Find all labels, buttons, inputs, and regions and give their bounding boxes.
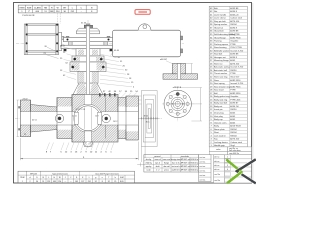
top-left spec table bbox=[18, 5, 97, 13]
svg-text:Spring washer: Spring washer bbox=[214, 23, 228, 26]
bottom drain boss bbox=[83, 142, 93, 147]
mounting plate B bbox=[61, 45, 114, 49]
svg-text:Body nut: Body nut bbox=[214, 105, 223, 108]
svg-text:Seat retainer ring: Seat retainer ring bbox=[214, 85, 231, 88]
svg-text:d: d bbox=[30, 177, 31, 179]
svg-text:Inconel X-750: Inconel X-750 bbox=[230, 50, 244, 52]
packing flange bbox=[72, 56, 104, 62]
seats bbox=[74, 112, 78, 124]
svg-text:cert no.: cert no. bbox=[200, 165, 206, 168]
svg-text:conn end: conn end bbox=[163, 159, 171, 161]
svg-text:—: — bbox=[70, 181, 72, 183]
top studs bbox=[99, 93, 101, 96]
svg-text:SS+PTFE: SS+PTFE bbox=[230, 34, 240, 36]
svg-text:PTFE: PTFE bbox=[230, 90, 236, 92]
svg-text:API 607 ed: API 607 ed bbox=[181, 169, 190, 172]
svg-text:A105+Zn: A105+Zn bbox=[230, 13, 239, 16]
svg-text:A193 B8: A193 B8 bbox=[230, 30, 239, 33]
svg-text:A216 WCB: A216 WCB bbox=[230, 125, 241, 128]
svg-text:Class 600 Flange Dimensions: Class 600 Flange Dimensions bbox=[95, 173, 119, 175]
svg-text:A182 F304: A182 F304 bbox=[230, 36, 241, 39]
svg-text:A194 8: A194 8 bbox=[230, 26, 237, 29]
svg-text:A276 410: A276 410 bbox=[230, 62, 240, 65]
svg-text:L: L bbox=[48, 177, 49, 179]
svg-text:Seat insert: Seat insert bbox=[214, 89, 224, 92]
svg-text:A105: A105 bbox=[230, 59, 236, 62]
svg-text:Drain plug: Drain plug bbox=[214, 111, 224, 114]
svg-text:1: 1 bbox=[22, 181, 23, 183]
svg-text:1 N-BV 600 RF: 1 N-BV 600 RF bbox=[22, 15, 36, 17]
svg-text:general: general bbox=[154, 155, 161, 158]
svg-text:B16.34 a: B16.34 a bbox=[191, 170, 199, 172]
svg-text:Graphite: Graphite bbox=[230, 95, 239, 98]
svg-text:det no: det no bbox=[214, 168, 219, 171]
nested dimension rectangles (end detail) bbox=[142, 91, 158, 147]
svg-text:B16.34 a: B16.34 a bbox=[191, 159, 199, 161]
strip cells below parts table bbox=[209, 147, 227, 152]
svg-text:SS316: SS316 bbox=[230, 109, 237, 111]
red approval stamp bbox=[135, 10, 150, 15]
bonnet neck bbox=[70, 62, 106, 71]
svg-text:ITEM: ITEM bbox=[20, 177, 25, 179]
svg-text:Mounting flange: Mounting flange bbox=[214, 59, 230, 62]
svg-text:292: 292 bbox=[88, 181, 91, 183]
svg-text:b: b bbox=[115, 177, 116, 179]
svg-text:Gland flange: Gland flange bbox=[214, 37, 227, 39]
svg-text:Inconel X-750: Inconel X-750 bbox=[230, 67, 244, 69]
svg-text:SS304: SS304 bbox=[230, 129, 237, 131]
svg-text:det no: det no bbox=[214, 156, 219, 159]
svg-text:Body seal ring: Body seal ring bbox=[214, 98, 228, 101]
svg-text:Graphite: Graphite bbox=[230, 40, 239, 43]
svg-text:1 : 2: 1 : 2 bbox=[156, 170, 160, 172]
svg-text:ITEM: ITEM bbox=[19, 7, 24, 9]
ISO mounting pad detail bbox=[163, 74, 198, 79]
centerline main horizontal bbox=[15, 117, 162, 119]
svg-text:Name plate: Name plate bbox=[214, 128, 225, 131]
body top adapter bbox=[73, 83, 103, 94]
svg-text:Body stud bolt: Body stud bolt bbox=[214, 102, 228, 105]
svg-text:L: L bbox=[89, 177, 90, 179]
svg-text:Nut: Nut bbox=[214, 10, 218, 13]
svg-text:g: g bbox=[95, 177, 96, 179]
stem passage bbox=[84, 95, 92, 105]
svg-text:det no: det no bbox=[214, 160, 219, 163]
svg-text:Thrust washer: Thrust washer bbox=[214, 72, 227, 75]
svg-text:SIZE: SIZE bbox=[27, 7, 32, 9]
svg-text:W: W bbox=[57, 7, 59, 9]
svg-text:A193 B8: A193 B8 bbox=[230, 7, 239, 10]
svg-text:A194 8: A194 8 bbox=[230, 10, 237, 13]
svg-text:app by: app by bbox=[146, 166, 152, 168]
svg-text:28 27: 28 27 bbox=[60, 46, 66, 48]
svg-text:API 607 ed: API 607 ed bbox=[181, 165, 190, 168]
svg-text:SS304: SS304 bbox=[230, 24, 237, 26]
svg-text:Rivet: Rivet bbox=[214, 131, 219, 134]
svg-text:Hexagon nut: Hexagon nut bbox=[214, 56, 226, 59]
svg-text:Body gasket ring: Body gasket ring bbox=[214, 95, 230, 98]
svg-text:Lock washer: Lock washer bbox=[214, 134, 226, 137]
svg-text:B16.34 a: B16.34 a bbox=[191, 163, 199, 165]
svg-text:des by: des by bbox=[146, 159, 152, 161]
stem shaft bbox=[86, 26, 89, 95]
svg-text:scale: scale bbox=[146, 170, 150, 172]
svg-text:45 46: 45 46 bbox=[114, 50, 120, 52]
svg-text:Lever handle: Lever handle bbox=[214, 13, 227, 16]
gland body bbox=[76, 49, 100, 56]
svg-text:31 33: 31 33 bbox=[81, 23, 87, 25]
svg-text:SS316: SS316 bbox=[230, 70, 237, 72]
svg-text:38 42: 38 42 bbox=[144, 116, 149, 118]
svg-text:NPS-DN: NPS-DN bbox=[30, 173, 38, 175]
svg-text:Closure conn.: Closure conn. bbox=[214, 121, 227, 124]
svg-text:cert no.: cert no. bbox=[200, 178, 206, 181]
svg-text:A105: A105 bbox=[230, 111, 236, 114]
svg-text:Ball: Ball bbox=[214, 93, 218, 95]
title block main bbox=[144, 155, 199, 172]
svg-text:26 12: 26 12 bbox=[113, 121, 118, 123]
svg-text:rev. No: rev. No bbox=[214, 180, 220, 182]
svg-text:Stem bearing: Stem bearing bbox=[214, 46, 227, 49]
svg-text:Carbon steel: Carbon steel bbox=[230, 17, 242, 20]
svg-text:51: 51 bbox=[42, 181, 44, 183]
svg-text:draft: draft bbox=[156, 165, 160, 168]
svg-text:A105: A105 bbox=[230, 115, 236, 118]
svg-text:Stem: Stem bbox=[214, 79, 219, 82]
svg-text:Vent plug: Vent plug bbox=[214, 115, 224, 118]
svg-text:Anti-static spring: Anti-static spring bbox=[214, 66, 230, 69]
svg-text:Inconel X-750: Inconel X-750 bbox=[230, 83, 244, 85]
svg-text:N-M: N-M bbox=[120, 177, 124, 179]
svg-text:41 51: 41 51 bbox=[32, 120, 37, 122]
svg-text:Packing: Packing bbox=[214, 41, 222, 43]
stem tower cap and leader 31 33 bbox=[84, 25, 92, 28]
svg-text:W: W bbox=[59, 177, 61, 179]
svg-text:A182 F316: A182 F316 bbox=[230, 79, 241, 82]
svg-text:flange: flange bbox=[164, 163, 169, 165]
mounting plate A bbox=[64, 37, 114, 41]
svg-text:valve: valve bbox=[216, 149, 220, 151]
bottom dimension table bbox=[18, 171, 135, 183]
svg-text:A182 F316: A182 F316 bbox=[230, 85, 241, 88]
svg-text:2": 2" bbox=[28, 11, 30, 13]
flange joint lines bbox=[30, 100, 32, 137]
svg-text:92: 92 bbox=[95, 181, 97, 183]
XHVAL X logo bbox=[226, 159, 241, 183]
svg-text:A276 410: A276 410 bbox=[230, 138, 240, 141]
svg-text:Seat spring: Seat spring bbox=[214, 82, 225, 85]
svg-text:Insert pin: Insert pin bbox=[214, 108, 223, 111]
sheet border frame bbox=[14, 3, 252, 184]
svg-text:⌀38-M8-B: ⌀38-M8-B bbox=[173, 86, 182, 89]
right flange bbox=[126, 96, 138, 140]
svg-text:n: n bbox=[102, 177, 103, 179]
svg-text:standards: standards bbox=[181, 155, 189, 158]
svg-text:wps 4: wps 4 bbox=[155, 163, 160, 165]
svg-text:A194 2H: A194 2H bbox=[230, 105, 239, 108]
svg-text:—: — bbox=[64, 181, 66, 183]
svg-text:Carbon steel: Carbon steel bbox=[230, 141, 242, 144]
lever handle top view bbox=[109, 43, 184, 45]
svg-text:A182 F316: A182 F316 bbox=[230, 92, 241, 95]
flange bolt circle view bbox=[162, 103, 194, 105]
svg-text:A105: A105 bbox=[230, 118, 236, 121]
svg-text:A276 410: A276 410 bbox=[230, 20, 240, 23]
svg-text:issue of: issue of bbox=[154, 159, 161, 161]
right closure bbox=[118, 98, 126, 139]
svg-text:2: 2 bbox=[30, 181, 31, 183]
svg-text:rev. No: rev. No bbox=[214, 174, 220, 176]
svg-text:wall thk m: wall thk m bbox=[172, 169, 181, 172]
svg-text:PTFE: PTFE bbox=[230, 44, 236, 46]
svg-text:cert no.: cert no. bbox=[200, 156, 206, 159]
svg-text:Typical Dimensions: Typical Dimensions bbox=[52, 173, 68, 175]
svg-text:A193 B8: A193 B8 bbox=[230, 53, 239, 56]
svg-text:Lever sleeve: Lever sleeve bbox=[214, 17, 227, 20]
svg-text:32: 32 bbox=[108, 181, 110, 183]
L dimension bbox=[19, 138, 21, 160]
svg-text:cert no.: cert no. bbox=[200, 169, 206, 172]
ball bbox=[76, 106, 101, 131]
left height dimension bbox=[17, 100, 19, 137]
svg-text:Stop pin bolt: Stop pin bolt bbox=[214, 20, 226, 23]
svg-text:face to fa: face to fa bbox=[172, 162, 181, 165]
svg-text:A194 8: A194 8 bbox=[230, 56, 237, 59]
hub white zones bbox=[57, 107, 71, 112]
svg-text:23 22: 23 22 bbox=[23, 98, 29, 100]
joint bolts bbox=[55, 114, 63, 122]
right column of title block bbox=[214, 155, 252, 183]
centerline vertical stem bbox=[87, 20, 89, 148]
svg-text:50: 50 bbox=[36, 181, 38, 183]
svg-text:4: 4 bbox=[227, 169, 228, 171]
connector dashes bbox=[57, 13, 59, 23]
svg-text:PTFE+316: PTFE+316 bbox=[230, 99, 241, 101]
svg-text:Stem seal ring: Stem seal ring bbox=[214, 76, 228, 79]
svg-text:Viton GLT: Viton GLT bbox=[230, 76, 240, 79]
svg-text:⌀36 F07: ⌀36 F07 bbox=[160, 58, 167, 61]
left closure bbox=[57, 98, 72, 139]
svg-text:chkd by: chkd by bbox=[145, 163, 151, 165]
svg-text:168: 168 bbox=[53, 181, 56, 183]
svg-text:Anti-static ball: Anti-static ball bbox=[214, 69, 227, 72]
svg-text:A105: A105 bbox=[230, 121, 236, 124]
parts list table bbox=[209, 6, 247, 147]
svg-text:det no: det no bbox=[214, 164, 219, 167]
svg-text:8: 8 bbox=[102, 181, 103, 183]
lower neck bbox=[78, 71, 98, 83]
svg-text:25%C PTFE: 25%C PTFE bbox=[230, 47, 242, 49]
svg-text:SS304: SS304 bbox=[230, 135, 237, 137]
svg-text:cert no.: cert no. bbox=[200, 174, 206, 177]
svg-text:API 607 ed: API 607 ed bbox=[181, 162, 190, 165]
svg-text:design tem: design tem bbox=[171, 158, 180, 161]
svg-text:3: 3 bbox=[227, 165, 228, 167]
gland hub bbox=[76, 28, 99, 34]
svg-text:Packing spacer: Packing spacer bbox=[214, 43, 229, 46]
svg-text:25: 25 bbox=[114, 181, 116, 183]
svg-text:CLASS: CLASS bbox=[34, 6, 41, 9]
svg-text:Gland bolt: Gland bolt bbox=[214, 30, 224, 33]
svg-text:B16.34 a: B16.34 a bbox=[191, 166, 199, 168]
svg-text:Bolt: Bolt bbox=[214, 7, 218, 10]
svg-text:press: press bbox=[164, 169, 169, 172]
svg-text:PTFE: PTFE bbox=[230, 73, 236, 75]
svg-text:J: J bbox=[65, 177, 66, 179]
svg-text:165: 165 bbox=[75, 181, 78, 183]
lower extension dims bbox=[141, 147, 143, 163]
svg-text:Locking device: Locking device bbox=[214, 142, 229, 144]
left neck bbox=[31, 105, 58, 133]
outer trim line right bbox=[252, 3, 254, 183]
svg-text:API 607 ed: API 607 ed bbox=[181, 158, 190, 161]
left flange bbox=[20, 100, 30, 137]
svg-text:1: 1 bbox=[227, 157, 228, 159]
svg-text:292: 292 bbox=[47, 181, 50, 183]
svg-text:Stem nut: Stem nut bbox=[214, 62, 223, 65]
svg-text:Body cap: Body cap bbox=[214, 119, 224, 121]
svg-text:Gland nut: Gland nut bbox=[214, 26, 223, 29]
svg-text:127: 127 bbox=[81, 181, 84, 183]
svg-text:8-20: 8-20 bbox=[120, 181, 124, 183]
svg-text:SS304: SS304 bbox=[230, 132, 237, 134]
svg-text:254: 254 bbox=[58, 181, 61, 183]
body cavity bbox=[74, 104, 102, 132]
svg-text:test and s: test and s bbox=[172, 165, 180, 168]
svg-text:A193 B7: A193 B7 bbox=[230, 102, 239, 105]
actuator side view bbox=[16, 42, 63, 44]
svg-text:Stud bolt: Stud bolt bbox=[214, 53, 223, 56]
svg-text:Belleville washer: Belleville washer bbox=[214, 49, 230, 52]
bore white band bbox=[20, 112, 138, 125]
middle column cells bbox=[199, 155, 211, 182]
trunnion below bbox=[85, 131, 92, 142]
svg-text:dim std: dim std bbox=[164, 165, 170, 168]
svg-text:12 11: 12 11 bbox=[72, 115, 76, 117]
yoke columns bbox=[69, 42, 73, 46]
svg-text:10 9: 10 9 bbox=[95, 115, 99, 117]
svg-text:20 19 21 18: 20 19 21 18 bbox=[76, 109, 86, 111]
center body bbox=[72, 95, 118, 143]
svg-text:cert no.: cert no. bbox=[200, 160, 206, 163]
